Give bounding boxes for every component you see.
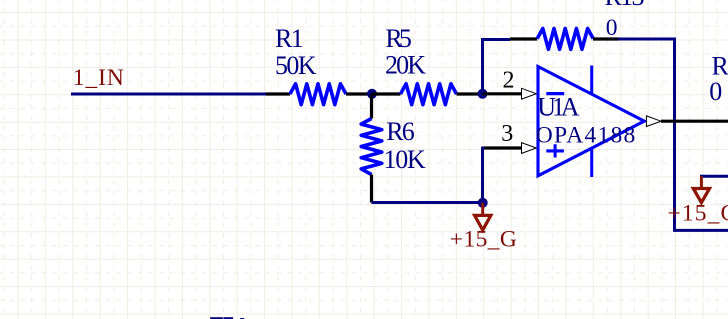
resistor R6 <box>361 94 382 203</box>
plus input marker <box>546 144 564 157</box>
svg-text:+15_G: +15_G <box>668 201 728 227</box>
op-amp U1A <box>538 66 644 178</box>
junction node A (R1/R5/R6) <box>367 89 377 99</box>
svg-text:OPA4188: OPA4188 <box>536 122 636 148</box>
wire to right ground <box>700 175 728 178</box>
resistor R13 <box>510 29 619 50</box>
resistor R1 <box>266 84 372 105</box>
svg-text:R1: R1 <box>275 24 304 53</box>
pin 2 <box>483 88 537 99</box>
svg-text:1_IN: 1_IN <box>73 65 124 91</box>
wire node B up to R13 <box>483 40 511 94</box>
svg-text:R5: R5 <box>385 24 412 53</box>
pin 3 <box>484 143 536 154</box>
resistor R5 <box>372 84 483 105</box>
junction node B (R5/pin2/feedback) <box>478 89 488 99</box>
power pin 4 <box>590 66 593 95</box>
svg-text:U1A: U1A <box>537 93 580 122</box>
svg-text:R13: R13 <box>605 0 645 11</box>
svg-text:50K: 50K <box>275 51 317 80</box>
wire node C to pin 3 <box>483 148 522 203</box>
output pin 1 <box>646 116 728 127</box>
label U2A (cut off at bottom edge) <box>210 317 244 319</box>
wire R6 bottom to node C <box>372 201 483 204</box>
junction node C (R6/pin3/ground) <box>478 198 488 208</box>
svg-text:20K: 20K <box>385 50 426 79</box>
power port +15_G (left ground) <box>475 203 491 230</box>
svg-text:3: 3 <box>501 121 513 147</box>
power pin 11 <box>590 147 593 177</box>
minus input marker <box>546 92 564 95</box>
svg-text:R: R <box>712 51 728 80</box>
power port +15_G (right ground) <box>693 176 709 202</box>
svg-text:R6: R6 <box>386 117 415 146</box>
wire net 1_IN <box>71 93 268 96</box>
wire R13 feedback down to next stage <box>618 39 728 230</box>
svg-text:0: 0 <box>606 15 618 41</box>
svg-text:+15_G: +15_G <box>450 227 517 253</box>
svg-text:10K: 10K <box>384 145 426 174</box>
svg-text:2: 2 <box>503 68 515 94</box>
svg-text:0: 0 <box>709 77 722 106</box>
